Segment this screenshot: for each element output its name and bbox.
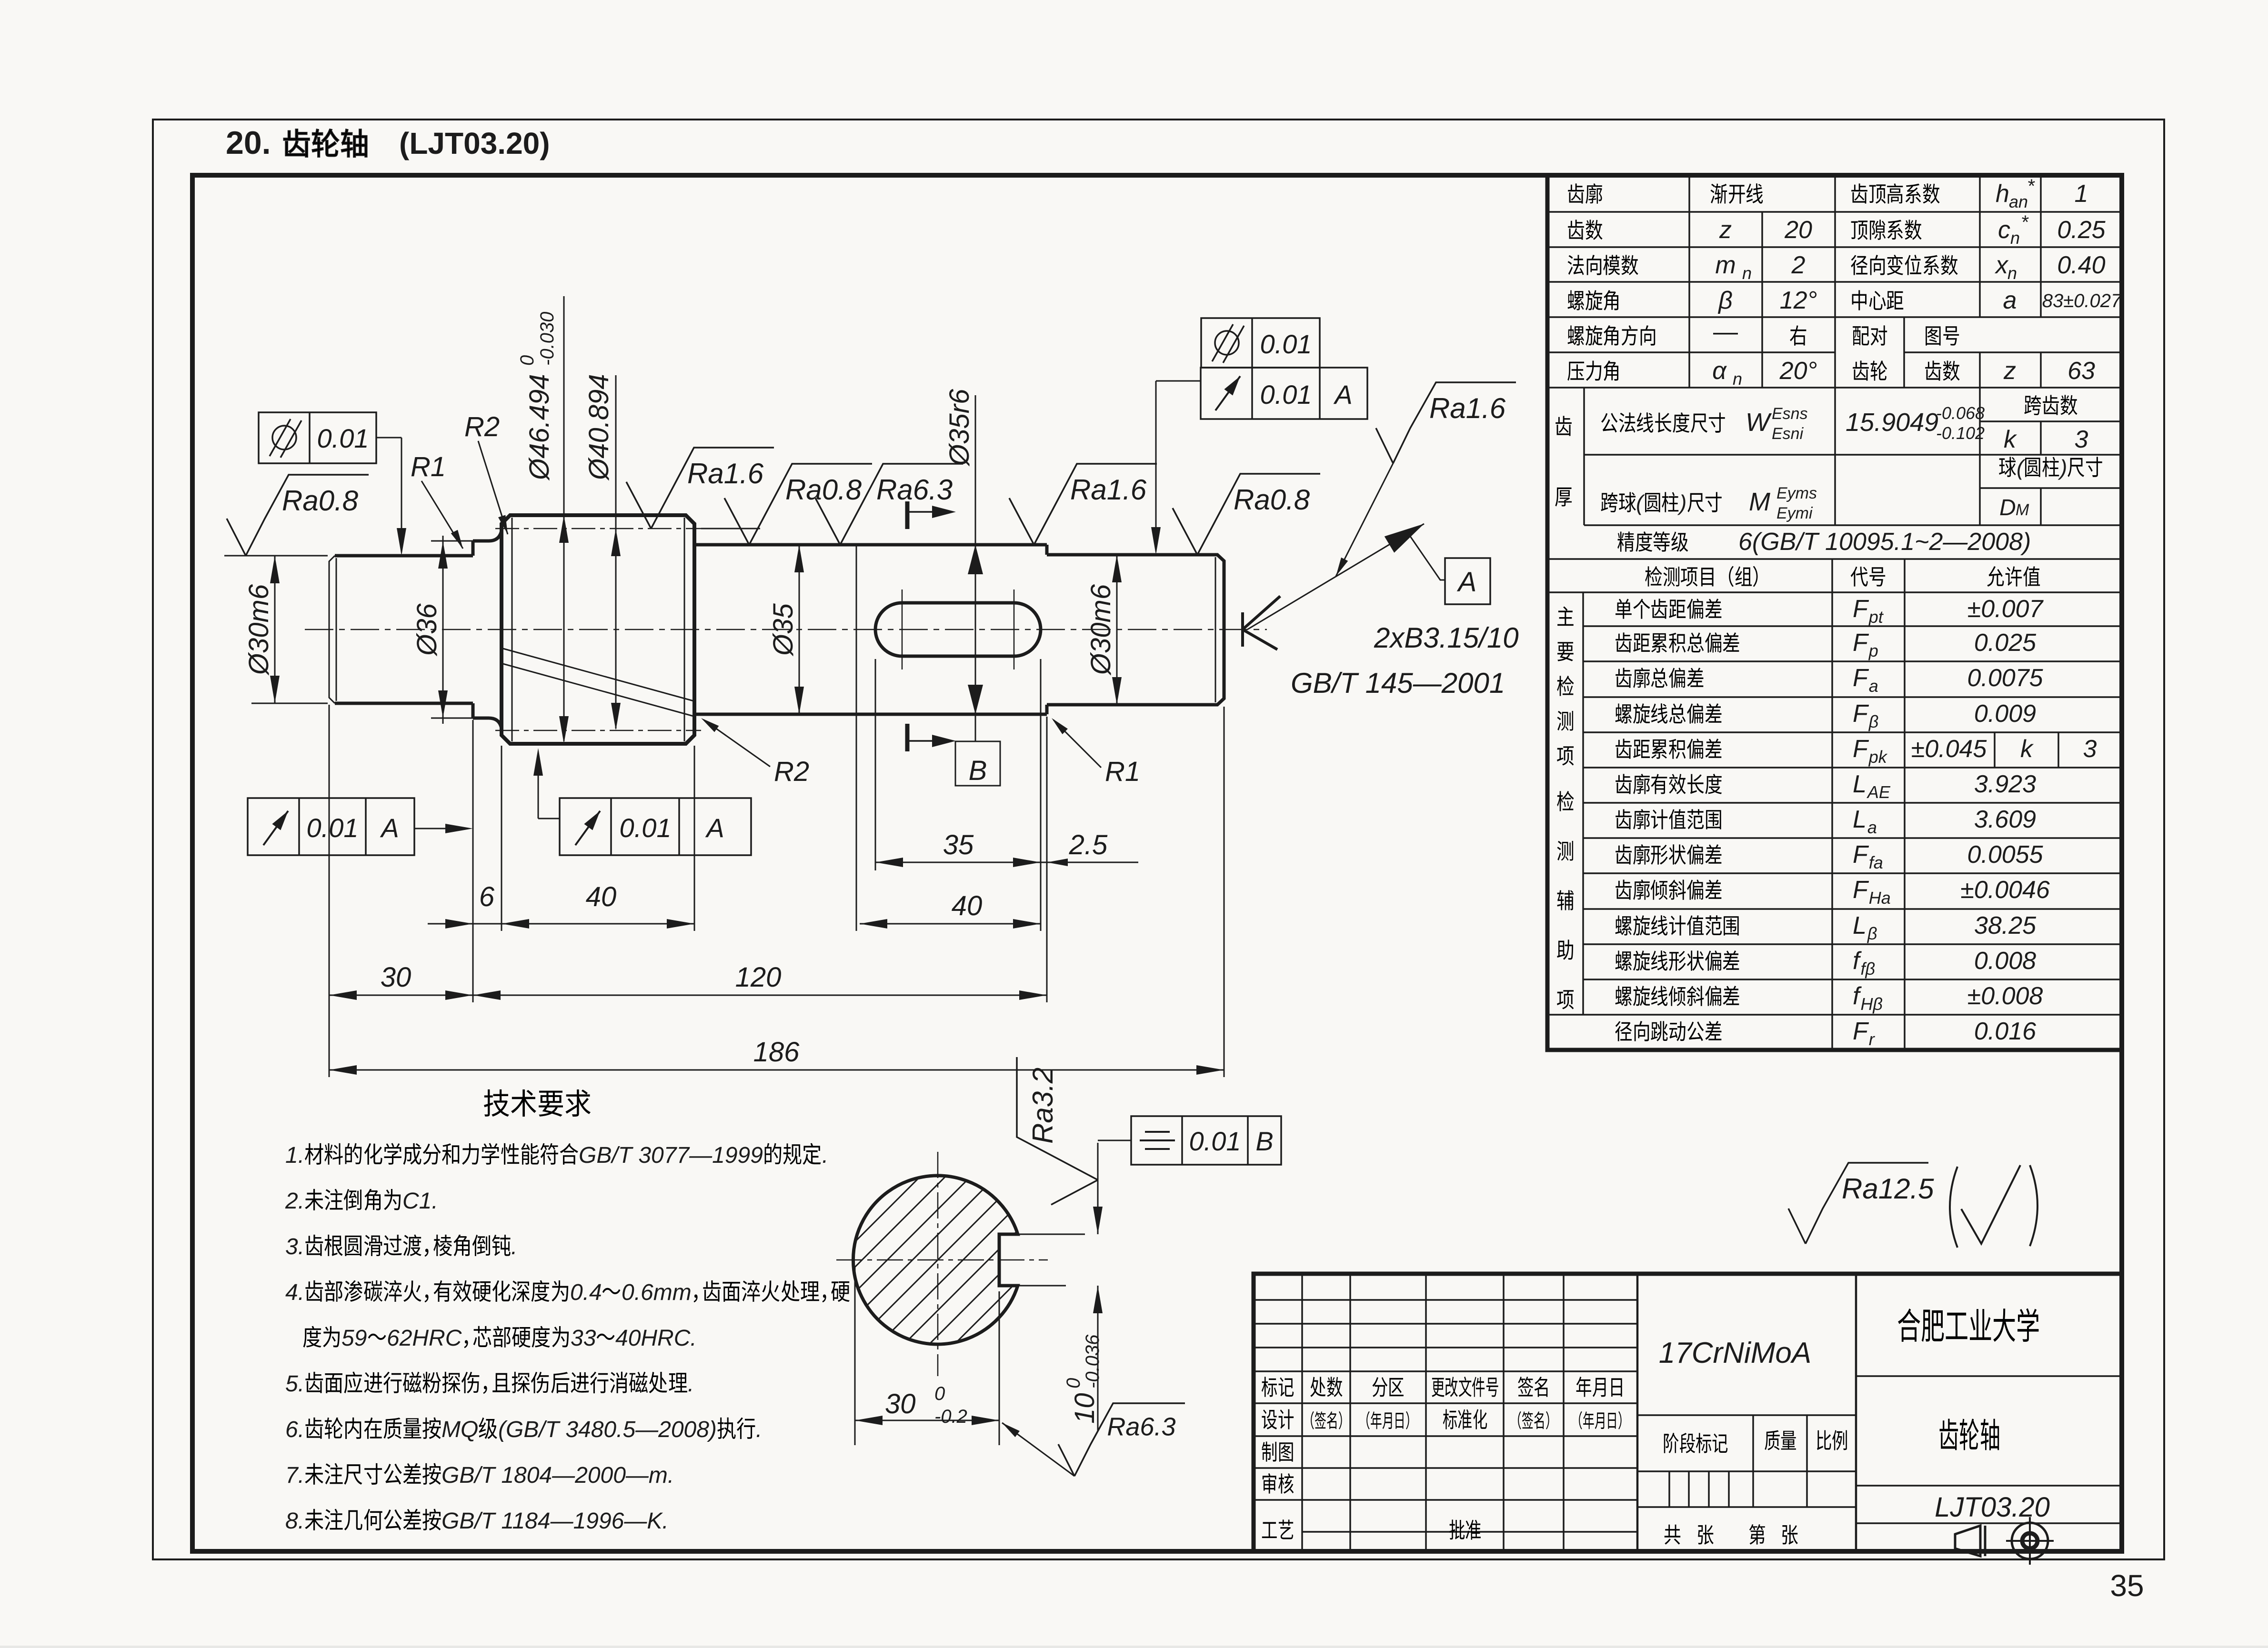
svg-text:F: F	[1853, 841, 1869, 869]
Ra0.8 on right journal	[1173, 474, 1320, 555]
svg-text:33: 33	[571, 1326, 596, 1351]
Ra1.6 on keyway section	[1009, 464, 1157, 545]
svg-text:3.923: 3.923	[1974, 770, 2036, 798]
svg-text:0.01: 0.01	[1260, 329, 1312, 359]
Ra6.3 on keyway flat	[1002, 1423, 1074, 1476]
svg-text:F: F	[1853, 629, 1869, 657]
svg-text:20°: 20°	[1779, 357, 1817, 385]
svg-text:L: L	[1853, 770, 1867, 798]
精度等级 row	[1617, 531, 1634, 551]
svg-text:2xB3.15/10: 2xB3.15/10	[1374, 622, 1519, 654]
svg-text:2.5: 2.5	[1069, 829, 1108, 860]
datum A box	[1445, 558, 1490, 604]
svg-text:±0.008: ±0.008	[1967, 982, 2043, 1010]
detection row 螺旋线形状偏差	[1616, 951, 1632, 971]
svg-text:Ø30m6: Ø30m6	[1085, 584, 1116, 676]
table row 1	[1568, 183, 1584, 203]
svg-text:Ra1.6: Ra1.6	[1070, 474, 1147, 506]
svg-text:5.: 5.	[285, 1371, 304, 1397]
svg-text:M: M	[1749, 488, 1770, 516]
svg-text:0.01: 0.01	[1260, 380, 1312, 410]
svg-text:.: .	[756, 1417, 762, 1442]
table row 2	[1568, 220, 1584, 240]
svg-text:A: A	[705, 813, 724, 843]
svg-text:p: p	[1868, 641, 1878, 660]
title block outline	[1254, 1274, 2122, 1551]
svg-text:3.: 3.	[285, 1234, 304, 1259]
svg-text:Esni: Esni	[1772, 425, 1804, 443]
svg-text:F: F	[1853, 1018, 1869, 1045]
Ra0.8 on Ø35	[724, 464, 872, 545]
Ra3.2 rotated	[1017, 1057, 1098, 1205]
section mark top	[905, 501, 910, 529]
projection symbol	[1955, 1526, 1980, 1556]
svg-text:β: β	[1717, 287, 1733, 314]
dim 30	[329, 995, 473, 996]
svg-text:0.6mm: 0.6mm	[622, 1280, 692, 1305]
datum A leader	[1247, 524, 1424, 629]
svg-text:0.009: 0.009	[1974, 700, 2036, 728]
svg-text:R2: R2	[774, 756, 809, 787]
svg-text:0.01: 0.01	[307, 813, 359, 843]
ext lines	[329, 705, 330, 1077]
dim 10 0/-0.036	[1097, 1143, 1099, 1234]
B label box	[955, 741, 1000, 786]
keyway edge extensions	[1018, 1234, 1085, 1235]
dim 120	[473, 995, 1047, 996]
dim 6 / 40 (gear)	[428, 923, 694, 925]
detection row 齿廓总偏差	[1616, 668, 1632, 688]
svg-text:20.: 20.	[226, 125, 271, 161]
section centerlines	[937, 1152, 939, 1376]
tech requirements title	[484, 1089, 509, 1117]
svg-text:Ø35: Ø35	[768, 603, 799, 656]
svg-text:x: x	[1994, 251, 2009, 279]
svg-text:-0.102: -0.102	[1936, 423, 1985, 443]
svg-text:15.9049: 15.9049	[1846, 408, 1938, 437]
svg-text:8.: 8.	[285, 1508, 304, 1534]
svg-text:40: 40	[952, 890, 983, 921]
svg-text:0.016: 0.016	[1974, 1018, 2036, 1045]
svg-text:10: 10	[1069, 1393, 1100, 1424]
svg-text:-0.068: -0.068	[1936, 403, 1985, 423]
svg-text:z: z	[2003, 357, 2016, 385]
svg-text:±0.007: ±0.007	[1967, 595, 2044, 623]
svg-text:B: B	[1255, 1126, 1273, 1156]
svg-text:0.025: 0.025	[1974, 629, 2037, 657]
svg-text:0: 0	[934, 1383, 945, 1404]
svg-text:40: 40	[586, 881, 617, 912]
svg-text:W: W	[1746, 408, 1772, 437]
svg-text:120: 120	[735, 962, 782, 993]
svg-text:3.609: 3.609	[1974, 806, 2036, 833]
dim Ø46.494 0/-0.030	[563, 296, 565, 741]
svg-text:A: A	[1457, 567, 1477, 598]
step to right journal	[1045, 545, 1049, 714]
svg-text:k: k	[2020, 735, 2034, 763]
svg-text:F: F	[1853, 700, 1869, 728]
svg-text:*: *	[2027, 176, 2035, 197]
svg-text:6: 6	[479, 881, 495, 912]
主要检测项 vertical label	[1557, 607, 1574, 626]
stacked frames top right: cylindricity	[1201, 318, 1320, 368]
svg-text:F: F	[1853, 876, 1869, 904]
detection row 齿廓倾斜偏差	[1616, 879, 1632, 899]
svg-text:Ø40.894: Ø40.894	[583, 374, 614, 481]
svg-text:Ra6.3: Ra6.3	[1107, 1413, 1175, 1441]
svg-text:a: a	[2003, 287, 2017, 314]
svg-text:0.01: 0.01	[1189, 1126, 1241, 1156]
svg-text:GB/T 145—2001: GB/T 145—2001	[1291, 667, 1505, 699]
svg-text:Ø30m6: Ø30m6	[243, 584, 274, 676]
svg-text:a: a	[1869, 676, 1878, 696]
dim 30 0/-0.2	[854, 1267, 856, 1445]
dim Ø30m6 left	[251, 555, 328, 557]
svg-text:n: n	[2007, 263, 2017, 283]
detection row 齿廓形状偏差	[1616, 844, 1632, 864]
gear root lines (dash-dot)	[495, 528, 701, 529]
parameter table outer	[1547, 175, 2122, 1050]
svg-text:.: .	[688, 1371, 694, 1397]
svg-text:Ø36: Ø36	[411, 603, 442, 656]
svg-text:63: 63	[2067, 357, 2095, 385]
svg-text:0.0055: 0.0055	[1967, 841, 2043, 869]
svg-text:Ra0.8: Ra0.8	[282, 485, 359, 517]
shaft section 1 (left journal Ø30m6)	[329, 556, 335, 703]
svg-text:pk: pk	[1868, 747, 1888, 767]
tech req line 5	[303, 1326, 321, 1348]
svg-text:n: n	[1733, 369, 1742, 389]
svg-text:R1: R1	[411, 451, 446, 482]
circular runout frame left (datum A)	[248, 798, 414, 855]
svg-text:m: m	[1715, 251, 1736, 279]
svg-text:Hβ: Hβ	[1860, 994, 1883, 1014]
Ra0.8 left journal	[224, 555, 251, 557]
svg-text:±0.0046: ±0.0046	[1960, 876, 2050, 904]
general Ra12.5	[1788, 1163, 1928, 1244]
svg-text:3: 3	[2083, 735, 2097, 763]
detection row 齿距累积偏差	[1616, 739, 1632, 759]
cylindricity frame left	[259, 412, 376, 463]
section mark bottom	[905, 724, 910, 751]
svg-text:35: 35	[2110, 1568, 2144, 1603]
svg-text:R1: R1	[1105, 756, 1140, 787]
table row 3	[1568, 255, 1584, 275]
svg-text:6(GB/T 10095.1~2—2008): 6(GB/T 10095.1~2—2008)	[1738, 528, 2031, 556]
svg-text:0.01: 0.01	[317, 423, 369, 453]
svg-text:Ra0.8: Ra0.8	[785, 474, 862, 506]
svg-text:A: A	[1333, 380, 1352, 410]
right journal Ø30m6	[1047, 555, 1224, 705]
dim Ø40.894	[615, 375, 617, 729]
detection row 螺旋线计值范围	[1616, 916, 1632, 936]
shaft section 2 (Ø36 collar)	[473, 530, 502, 541]
detection row 螺旋线倾斜偏差	[1616, 986, 1632, 1006]
symmetry frame 0.01 B	[1131, 1116, 1281, 1165]
table row 4	[1568, 290, 1585, 310]
detection row 齿距累积总偏差	[1616, 632, 1632, 652]
svg-text:n: n	[2010, 228, 2020, 248]
gear helix direction lines	[503, 649, 693, 701]
detection row 齿廓计值范围	[1616, 809, 1632, 829]
title block grid	[1301, 1274, 1303, 1551]
svg-text:38.25: 38.25	[1974, 912, 2037, 939]
centerline	[305, 629, 1267, 630]
table grid	[1547, 211, 2122, 213]
detection row 径向跳动公差	[1615, 1021, 1632, 1041]
svg-text:0: 0	[517, 355, 538, 366]
detection row 螺旋线总偏差	[1616, 704, 1632, 724]
svg-text:.: .	[511, 1234, 517, 1259]
svg-text:β: β	[1868, 712, 1879, 731]
dim Ø35r6 + section plane B line	[975, 395, 976, 741]
svg-text:Ra1.6: Ra1.6	[687, 458, 764, 489]
svg-text:17CrNiMoA: 17CrNiMoA	[1659, 1337, 1811, 1369]
检测辅助项 vertical label	[1557, 791, 1574, 811]
dim 35 (keyway slot)	[875, 862, 1041, 863]
svg-text:6.: 6.	[285, 1417, 304, 1442]
shaft Ø35 section	[694, 543, 1047, 547]
detection row 单个齿距偏差	[1616, 599, 1632, 619]
svg-text:L: L	[1853, 806, 1867, 833]
svg-text:30: 30	[381, 962, 411, 993]
detection row 齿廓有效长度	[1616, 774, 1632, 794]
svg-text:Ra1.6: Ra1.6	[1429, 392, 1506, 424]
svg-text:-0.030: -0.030	[537, 312, 558, 366]
svg-text:0.0075: 0.0075	[1967, 664, 2043, 692]
svg-text:B: B	[969, 755, 987, 786]
svg-text:±0.045: ±0.045	[1911, 735, 1987, 763]
table row 6	[1567, 362, 1584, 381]
Ra1.6 on gear	[701, 528, 760, 529]
svg-text:F: F	[1853, 664, 1869, 692]
svg-text:MQ: MQ	[442, 1417, 478, 1442]
section B-B outline	[853, 1176, 1018, 1344]
keyway arc-center ticks	[902, 589, 903, 669]
svg-text:R2: R2	[464, 411, 500, 442]
svg-text:F: F	[1853, 735, 1869, 763]
svg-text:α: α	[1712, 357, 1727, 385]
svg-text:A: A	[380, 813, 399, 843]
dim 40 (keyway section)	[860, 923, 1041, 925]
svg-text:*: *	[2021, 212, 2029, 233]
svg-text:r: r	[1869, 1029, 1876, 1049]
svg-text:0: 0	[1063, 1378, 1084, 1388]
svg-text:k: k	[2004, 426, 2017, 453]
svg-text:20: 20	[1784, 216, 1812, 244]
keyway slot (top view)	[875, 603, 1041, 656]
table row 5	[1568, 326, 1585, 346]
svg-text:59: 59	[341, 1326, 367, 1351]
svg-text:4.: 4.	[285, 1280, 304, 1305]
svg-text:Ra0.8: Ra0.8	[1234, 484, 1310, 516]
svg-text:Ra6.3: Ra6.3	[876, 474, 953, 506]
center hole symbol K	[1241, 612, 1244, 647]
outer page border	[153, 120, 2164, 1559]
svg-text:0.008: 0.008	[1974, 947, 2036, 975]
parenthesized checkmark	[1950, 1167, 1957, 1248]
svg-text:(: (	[1636, 490, 1646, 515]
svg-text:0.40: 0.40	[2057, 251, 2105, 279]
svg-text:Esns: Esns	[1772, 405, 1808, 423]
svg-text:L: L	[1853, 912, 1867, 939]
svg-text:β: β	[1867, 924, 1877, 943]
dim Ø30m6 right	[1116, 555, 1118, 705]
svg-text:fa: fa	[1869, 853, 1883, 872]
title block texts	[1262, 1377, 1277, 1397]
svg-text:-0.036: -0.036	[1082, 1334, 1103, 1388]
svg-text:Eyms: Eyms	[1776, 484, 1817, 502]
svg-text:83±0.027: 83±0.027	[2042, 290, 2122, 311]
svg-text:62HRC: 62HRC	[387, 1326, 462, 1351]
svg-text:2.: 2.	[285, 1189, 304, 1214]
svg-text:1.: 1.	[285, 1143, 304, 1168]
svg-text:0.01: 0.01	[620, 813, 672, 843]
svg-text:(GB/T 3480.5—2008): (GB/T 3480.5—2008)	[498, 1417, 717, 1442]
svg-text:a: a	[1867, 818, 1877, 837]
svg-text:z: z	[1719, 216, 1732, 244]
svg-text:M: M	[2016, 501, 2029, 519]
Ra6.3 on Ø35	[815, 464, 963, 545]
dim 2.5	[1041, 862, 1138, 863]
svg-text:Ra12.5: Ra12.5	[1842, 1173, 1934, 1205]
检测项目 header	[1645, 566, 1662, 587]
gear chamfer lines	[512, 518, 513, 741]
svg-text:AE: AE	[1867, 782, 1891, 802]
svg-text:-0.2: -0.2	[934, 1406, 967, 1427]
svg-text:Ra3.2: Ra3.2	[1027, 1068, 1059, 1144]
svg-text:186: 186	[753, 1037, 800, 1068]
svg-text:3: 3	[2075, 426, 2088, 453]
svg-text:0.25: 0.25	[2057, 216, 2106, 244]
Ra1.6 center hole w/ leader	[1376, 382, 1516, 463]
svg-text:F: F	[1853, 595, 1869, 623]
svg-text:40HRC.: 40HRC.	[615, 1326, 697, 1351]
svg-text:35: 35	[943, 829, 974, 860]
svg-text:30: 30	[885, 1388, 916, 1419]
svg-text:Ø46.494: Ø46.494	[524, 374, 555, 481]
svg-text:—: —	[1713, 318, 1738, 346]
svg-text:C1.: C1.	[402, 1189, 438, 1214]
svg-text:pt: pt	[1868, 607, 1884, 627]
svg-text:Eymi: Eymi	[1776, 504, 1813, 522]
svg-text:n: n	[1742, 263, 1752, 283]
svg-text:2: 2	[1791, 251, 1806, 279]
svg-text:GB/T 1184—1996—K.: GB/T 1184—1996—K.	[442, 1508, 669, 1534]
svg-text:an: an	[2009, 192, 2028, 211]
gear section Ø46.494	[502, 515, 694, 744]
svg-text:fβ: fβ	[1860, 959, 1875, 979]
circular runout frame mid (datum A)	[560, 798, 751, 855]
dim 186	[329, 1069, 1224, 1071]
svg-text:c: c	[1998, 216, 2010, 244]
svg-text:Ha: Ha	[1869, 888, 1891, 908]
inner drawing frame	[192, 175, 2122, 1551]
svg-text:(: (	[2017, 455, 2026, 480]
齿厚 rows	[1555, 416, 1572, 436]
svg-text:1: 1	[2075, 180, 2088, 208]
svg-text:Ø35r6: Ø35r6	[944, 389, 975, 467]
dim Ø35	[799, 545, 800, 714]
svg-text:(LJT03.20): (LJT03.20)	[399, 126, 550, 160]
stacked frames top right: circular runout A	[1201, 368, 1367, 419]
svg-text:GB/T 1804—2000—m.: GB/T 1804—2000—m.	[442, 1463, 674, 1488]
svg-text:h: h	[1996, 180, 2009, 208]
svg-text:GB/T 3077—1999: GB/T 3077—1999	[579, 1143, 763, 1168]
svg-text:LJT03.20: LJT03.20	[1935, 1492, 2050, 1523]
svg-text:0.4: 0.4	[570, 1280, 602, 1305]
svg-text:D: D	[1999, 495, 2016, 520]
dim Ø36	[431, 540, 473, 542]
svg-text:7.: 7.	[285, 1463, 304, 1488]
svg-text:.: .	[822, 1143, 828, 1168]
svg-text:12°: 12°	[1780, 287, 1817, 314]
